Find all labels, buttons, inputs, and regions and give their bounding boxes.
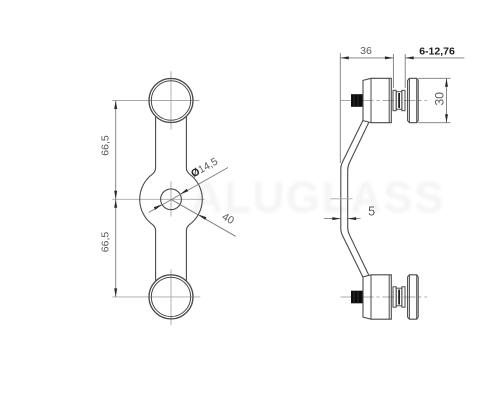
svg-text:6-12,76: 6-12,76 [419, 46, 455, 58]
svg-text:66,5: 66,5 [99, 232, 111, 253]
svg-text:30: 30 [433, 92, 447, 106]
svg-text:36: 36 [360, 45, 372, 57]
svg-text:66,5: 66,5 [99, 135, 111, 156]
svg-text:5: 5 [368, 204, 375, 218]
